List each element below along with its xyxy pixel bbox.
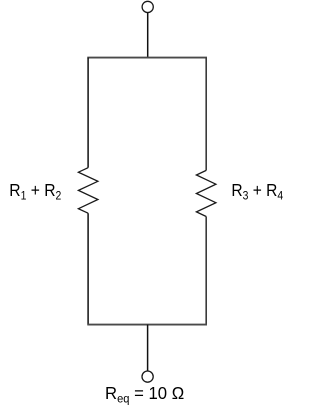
wire top rail: [87, 57, 207, 59]
svg-text:R3 + R4: R3 + R4: [231, 180, 283, 203]
wire left branch top: [87, 58, 89, 168]
wire top lead: [147, 13, 149, 58]
wire bottom rail: [87, 324, 207, 326]
wire right branch top: [205, 58, 207, 171]
resistor R1+R2: [78, 168, 98, 214]
terminal T2 (bottom): [142, 371, 153, 382]
svg-text:R1 + R2: R1 + R2: [9, 180, 61, 203]
wire right branch bottom: [205, 217, 207, 325]
wire left branch bottom: [87, 213, 89, 324]
wire bottom lead: [147, 325, 149, 371]
terminal T1 (top): [142, 1, 153, 12]
resistor R3+R4: [196, 170, 216, 216]
svg-text:Req = 10 Ω: Req = 10 Ω: [105, 382, 184, 405]
